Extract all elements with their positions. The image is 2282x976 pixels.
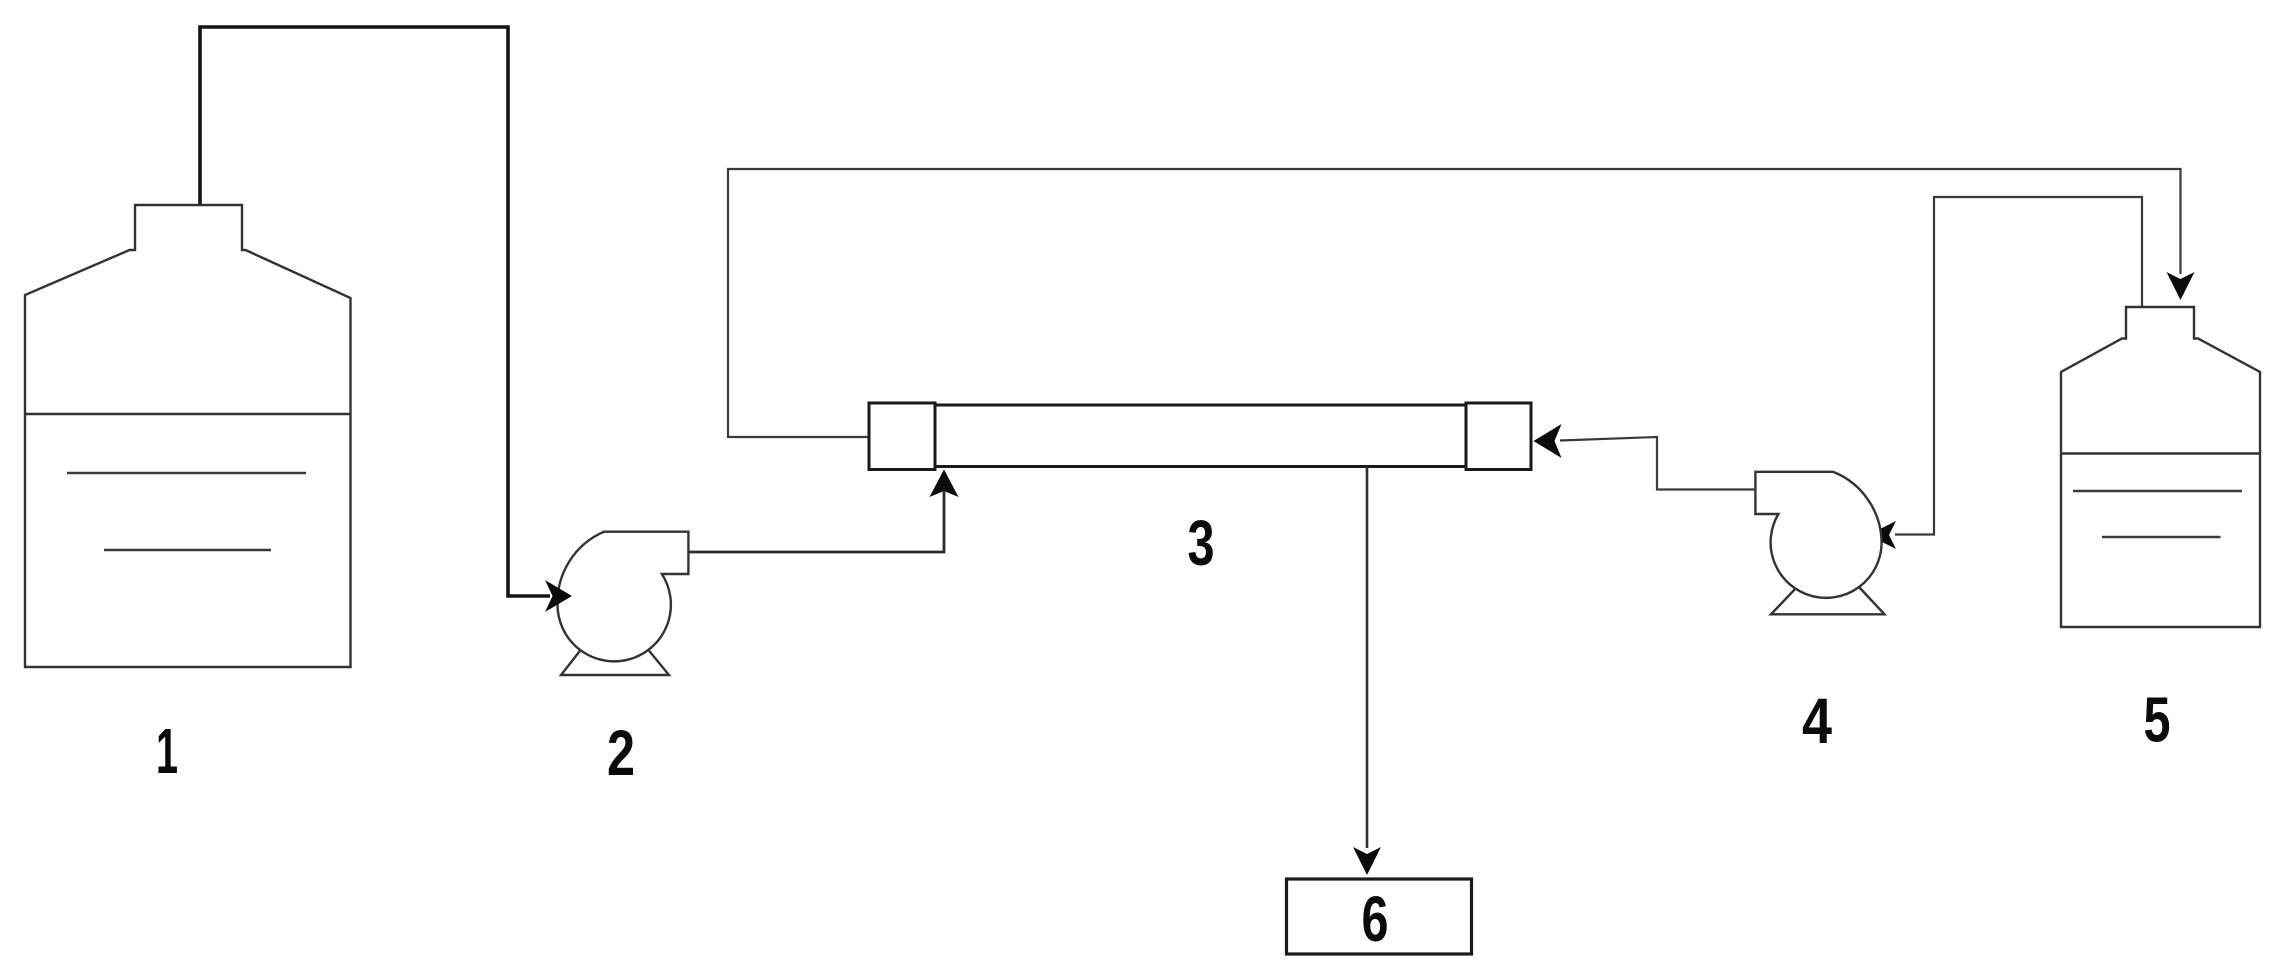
arrow into box6 — [1353, 847, 1381, 875]
tank 1 liquid line b — [104, 549, 271, 552]
tank 5 — [2061, 307, 2260, 627]
pump 4 base — [1771, 587, 1885, 614]
box 6 — [1287, 879, 1472, 954]
tank 5 liquid line a — [2073, 490, 2242, 493]
module 3 left cap — [869, 403, 935, 470]
wire module3 permeate down — [1366, 467, 1369, 849]
svg-text:6: 6 — [1362, 883, 1389, 955]
tank 1 liquid line a — [67, 472, 306, 475]
svg-text:4: 4 — [1802, 685, 1832, 757]
pump 2 base — [561, 647, 669, 675]
wire module3 left loop to tank5 — [728, 169, 2181, 437]
svg-text:1: 1 — [156, 715, 178, 787]
wire pump4 to module3 right — [1560, 437, 1755, 490]
tank 5 liquid level — [2062, 452, 2260, 455]
arrow feed into module3 bottom — [930, 470, 959, 498]
module 3 right cap — [1466, 403, 1531, 470]
svg-text:5: 5 — [2144, 684, 2171, 756]
module 3 tube — [869, 405, 1531, 467]
pump 4 — [1755, 472, 1881, 598]
tank 1 — [25, 205, 351, 667]
tank 1 liquid level — [25, 413, 350, 416]
pump 2 — [557, 532, 688, 662]
wire tank5 to pump4 — [1895, 197, 2142, 535]
tank 5 liquid line b — [2102, 536, 2221, 539]
wire pump2 to module3 — [688, 472, 944, 552]
arrow into pump2 — [545, 580, 572, 612]
arrow into tank5 — [2167, 272, 2195, 300]
arrow into module3 right — [1534, 424, 1562, 458]
wire tank1 to pump2 — [200, 27, 550, 596]
svg-text:3: 3 — [1188, 507, 1215, 579]
svg-text:2: 2 — [607, 717, 635, 789]
arrow into pump4 — [1868, 521, 1896, 549]
